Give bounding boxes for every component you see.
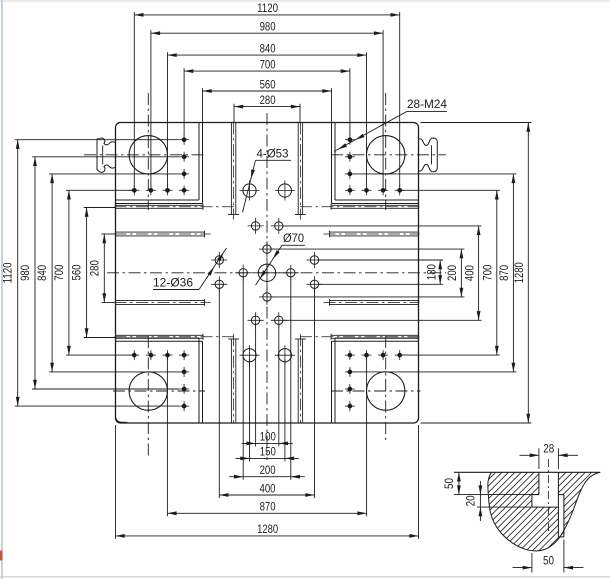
dimension 100 (horizontal) bottom — [242, 442, 293, 444]
svg-text:700: 700 — [52, 265, 66, 281]
dimension 1120 (horizontal) top — [134, 14, 399, 16]
svg-text:400: 400 — [462, 265, 476, 281]
tie-bar hole — [129, 136, 167, 174]
section detail T-slot profile — [538, 472, 540, 494]
svg-text:50: 50 — [442, 478, 456, 489]
M24 tapped hole — [345, 185, 355, 195]
M24 tapped hole — [179, 152, 189, 162]
dimension 980 (vertical) left — [34, 157, 36, 389]
M24 tapped hole — [345, 401, 355, 411]
svg-text:200: 200 — [445, 265, 459, 281]
dimension 1280 (horizontal) bottom — [116, 535, 419, 537]
M24 tapped hole — [345, 350, 355, 360]
main vertical centerline — [266, 113, 268, 460]
dimension 700 (vertical) right — [496, 190, 498, 355]
extension lines bottom chain — [255, 324, 257, 447]
horizontal T-slot (double line) — [330, 300, 419, 302]
tie-bar circle centerline horizontal bottom-right — [331, 390, 421, 392]
section dim 50 bottom — [531, 553, 533, 573]
tie-bar slot notch (right) — [419, 138, 438, 172]
dimension 1120 (vertical) left — [17, 140, 19, 406]
vertical T-slot (double line) — [230, 339, 232, 423]
section detail hatch lines — [312, 460, 610, 560]
M24 tapped hole — [179, 367, 189, 377]
svg-text:870: 870 — [260, 500, 276, 514]
dimension 840 (horizontal) top — [168, 54, 367, 56]
M24 tapped hole — [378, 185, 388, 195]
svg-text:980: 980 — [18, 265, 32, 281]
horizontal T-slot (double line) — [116, 231, 205, 233]
page bottom border — [0, 576, 610, 578]
hole D36 inner — [259, 289, 275, 305]
dimension 870 (horizontal) bottom — [167, 512, 366, 514]
dimension 400 (vertical) right — [478, 226, 480, 320]
svg-text:20: 20 — [463, 495, 477, 506]
svg-text:180: 180 — [424, 264, 438, 280]
M24 tapped hole — [345, 169, 355, 179]
hole D53 — [275, 181, 295, 201]
horizontal T-slot (double line) — [331, 334, 419, 336]
tie-bar hole — [129, 372, 167, 410]
tie-bar hole — [367, 372, 405, 410]
M24 tapped hole — [179, 185, 189, 195]
M24 tapped hole — [345, 367, 355, 377]
horizontal T-slot (double line) — [116, 334, 204, 336]
M24 tapped hole — [345, 135, 355, 145]
page left border — [1, 0, 3, 579]
dimension 280 (horizontal) top — [234, 106, 300, 108]
M24 tapped hole — [163, 185, 173, 195]
dimension 400 (horizontal) bottom — [219, 494, 314, 496]
M24 tapped hole — [378, 350, 388, 360]
svg-text:12-Ø36: 12-Ø36 — [153, 276, 193, 290]
svg-text:28: 28 — [543, 441, 554, 455]
tie-bar circle centerline horizontal bottom-left — [113, 390, 205, 392]
vertical T-slot (double line) — [230, 123, 232, 215]
svg-text:700: 700 — [260, 57, 276, 71]
section detail broken-out boundary — [488, 472, 600, 551]
svg-text:700: 700 — [481, 265, 495, 281]
horizontal T-slot (double line) — [116, 300, 205, 302]
dimension 840 (vertical) left — [51, 174, 53, 372]
svg-text:4-Ø53: 4-Ø53 — [257, 147, 289, 161]
tie-bar circle centerline vertical top-left — [147, 93, 149, 210]
extension lines left chain — [15, 139, 179, 141]
horizontal T-slot (double line) — [331, 204, 419, 206]
svg-text:280: 280 — [87, 260, 101, 276]
main horizontal centerline — [107, 272, 446, 274]
svg-text:1120: 1120 — [257, 1, 278, 15]
page top border — [0, 0, 610, 2]
center hole D70 — [254, 260, 280, 286]
svg-text:840: 840 — [260, 41, 276, 55]
dimension 280 (vertical) left — [103, 234, 105, 303]
section dim 28 — [538, 448, 540, 469]
svg-text:200: 200 — [260, 463, 276, 477]
M24 tapped hole — [129, 185, 139, 195]
M24 tapped hole — [179, 384, 189, 394]
M24 tapped hole — [395, 350, 405, 360]
hole D36 outer — [307, 276, 323, 292]
M24 tapped hole — [179, 169, 189, 179]
hole D36 outer — [248, 312, 264, 328]
svg-text:150: 150 — [260, 445, 276, 459]
dimension 980 (horizontal) top — [151, 32, 383, 34]
hole D36 inner — [235, 265, 251, 281]
section dim 50 left — [454, 494, 539, 496]
svg-text:840: 840 — [35, 265, 49, 281]
dimension 200 (vertical) right — [460, 249, 462, 297]
hole D36 inner — [259, 241, 275, 257]
svg-text:50: 50 — [543, 554, 554, 568]
hole D36 outer — [271, 312, 287, 328]
horizontal T-slot (double line) — [330, 231, 419, 233]
M24 tapped hole — [345, 152, 355, 162]
corner block inner edge (double line) — [202, 123, 204, 204]
extension lines right chain — [318, 259, 443, 261]
hole D36 outer — [211, 276, 227, 292]
tie-bar circle centerline horizontal top-right — [331, 154, 446, 156]
tie-bar circle centerline vertical bottom-right — [385, 336, 387, 441]
M24 tapped hole — [179, 350, 189, 360]
svg-text:560: 560 — [260, 77, 276, 91]
M24 tapped hole — [179, 135, 189, 145]
svg-text:28-M24: 28-M24 — [407, 97, 447, 111]
svg-text:980: 980 — [260, 20, 276, 34]
M24 tapped hole — [362, 350, 372, 360]
extension lines top chain — [133, 12, 135, 187]
M24 tapped hole — [129, 350, 139, 360]
hole D36 outer — [307, 252, 323, 268]
horizontal T-slot (double line) — [116, 204, 204, 206]
M24 tapped hole — [395, 185, 405, 195]
hole D53 — [275, 345, 295, 365]
tie-bar circle centerline vertical bottom-left — [147, 336, 149, 457]
section dim 20 — [477, 506, 532, 508]
dimension 200 (horizontal) bottom — [229, 476, 305, 478]
tie-bar circle centerline vertical top-right — [385, 93, 387, 210]
dimension 700 (vertical) left — [68, 190, 70, 355]
M24 tapped hole — [146, 185, 156, 195]
section detail top surface — [454, 471, 600, 473]
corner block inner edge (double line) — [331, 341, 333, 423]
svg-text:560: 560 — [70, 264, 84, 280]
M24 tapped hole — [146, 350, 156, 360]
corner block inner edge (double line) — [331, 123, 333, 204]
dimension 180 (vertical) right — [439, 260, 441, 284]
vertical T-slot (double line) — [297, 123, 299, 215]
svg-text:280: 280 — [260, 93, 276, 107]
red watermark mark left edge — [0, 551, 2, 561]
dimension 560 (horizontal) top — [203, 90, 332, 92]
vertical T-slot (double line) — [297, 339, 299, 423]
hole D53 — [240, 345, 260, 365]
dimension 150 (horizontal) bottom — [236, 457, 299, 459]
svg-text:100: 100 — [260, 430, 276, 444]
dimension 870 (vertical) right — [512, 174, 514, 372]
svg-text:Ø70: Ø70 — [283, 231, 304, 245]
dimension 1280 (vertical) right — [527, 123, 529, 424]
hole D53 — [240, 181, 260, 201]
svg-text:870: 870 — [497, 265, 511, 281]
section detail slot centerline — [548, 459, 550, 533]
M24 tapped hole — [362, 185, 372, 195]
corner block inner edge (double line) — [202, 341, 204, 423]
M24 tapped hole — [163, 350, 173, 360]
svg-text:1280: 1280 — [257, 522, 278, 536]
hole D36 outer — [211, 252, 227, 268]
svg-text:1280: 1280 — [512, 262, 526, 283]
svg-text:1120: 1120 — [1, 262, 15, 283]
dimension 560 (vertical) left — [86, 208, 88, 338]
tie-bar hole — [367, 136, 405, 174]
tie-bar slot notch (left) — [97, 138, 116, 172]
tie-bar circle centerline horizontal top-left — [84, 154, 205, 156]
bottom-left corner relief step — [116, 416, 128, 424]
hole D36 outer — [271, 218, 287, 234]
platen outline — [116, 123, 419, 424]
svg-text:400: 400 — [260, 481, 276, 495]
M24 tapped hole — [179, 401, 189, 411]
hole D36 inner — [283, 265, 299, 281]
M24 tapped hole — [345, 384, 355, 394]
hole D36 outer — [248, 218, 264, 234]
dimension 700 (horizontal) top — [184, 70, 350, 72]
